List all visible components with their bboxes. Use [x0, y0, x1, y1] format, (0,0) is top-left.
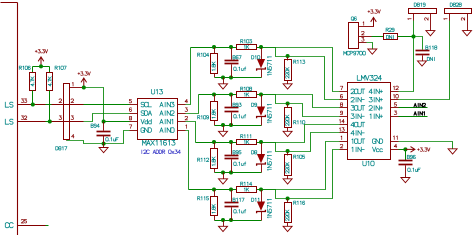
wire Vcc pin4	[399, 149, 406, 151]
junction rail R112 top	[212, 140, 216, 144]
ground cell	[223, 78, 225, 84]
wire cell output jog	[262, 143, 288, 152]
pin 4 D817	[66, 140, 68, 141]
resistor R112 1.8K	[214, 143, 216, 149]
ground Q6	[368, 49, 377, 54]
wire cell to opamp B	[288, 133, 340, 152]
U10 pin 1 1OUT	[340, 141, 348, 143]
wire AIN3 link	[186, 48, 191, 105]
label AIN2	[414, 103, 425, 107]
resistor R103 1K	[237, 45, 257, 50]
wire R115 bottom	[215, 220, 262, 222]
resistor R107 4.7K	[47, 73, 53, 91]
capacitor B93 0.1uf	[231, 95, 233, 107]
resistor R104 1.8K	[214, 48, 216, 54]
wire LS33 to D817	[46, 104, 52, 106]
junction rail B117 top	[229, 188, 233, 192]
junction R107 bottom	[48, 120, 52, 124]
ground cell	[223, 126, 225, 132]
junction B93 bottom	[229, 123, 233, 127]
wire R29 to node	[398, 36, 414, 38]
wire AIN1 link	[186, 122, 196, 143]
diode D819	[409, 9, 437, 14]
wire pullup tee	[33, 66, 50, 68]
junction R113 top	[286, 54, 290, 58]
ground D819	[426, 31, 435, 36]
resistor R113 220K	[287, 57, 289, 61]
U10 pin 7 2OUT	[340, 91, 348, 93]
wire Q6 pin2 to R29	[372, 36, 384, 38]
diode array D817	[52, 104, 84, 106]
ground 220K	[283, 131, 292, 136]
junction Vcc	[403, 147, 407, 151]
Q6 pin 3	[359, 42, 367, 44]
ground cell	[223, 221, 225, 227]
wire AIN2 link	[186, 95, 199, 114]
pin 1 D817	[70, 87, 84, 89]
label AIN1	[414, 112, 424, 116]
wire cell to opamp B	[288, 57, 340, 100]
U13 pin 4 AIN3	[178, 104, 186, 106]
wire SDA jog	[84, 114, 130, 122]
junction rail diode D9	[259, 93, 263, 97]
diode D10 1N5711	[261, 48, 263, 60]
junction rail diode D10	[259, 45, 263, 49]
capacitor B117 0.1uf	[231, 190, 233, 202]
U10 pin 10 3IN+	[391, 99, 399, 101]
junction R110 top	[286, 102, 290, 106]
wire cell to opamp B	[288, 150, 340, 199]
connector sheet-edge component body	[1, 2, 18, 4]
junction rail B67 top	[229, 45, 233, 49]
wire R109 bottom	[215, 125, 262, 127]
wire cell to opamp A	[262, 142, 340, 190]
junction gnd tee	[221, 76, 225, 80]
U13 pin 3 AIN2	[178, 113, 186, 115]
junction gnd tee	[221, 123, 225, 127]
U13 pin 1 AIN0	[178, 130, 186, 132]
diode D828	[445, 9, 472, 14]
U10 pin 9 3IN-	[340, 116, 348, 118]
U10 pin 8 3OUT	[340, 107, 348, 109]
ground pin11	[448, 149, 457, 154]
wire 3IN+ to D828	[399, 21, 450, 100]
pin CC 25	[18, 225, 46, 227]
wire LS32 to D817	[46, 121, 52, 123]
wire 4IN+ to D819	[399, 21, 414, 92]
U10 pin 5 2IN+	[391, 107, 399, 109]
junction pullup top	[39, 64, 43, 68]
wire cell to opamp B	[288, 104, 340, 117]
wire rail R103 cell	[191, 47, 237, 49]
U13 pin 8 Vdd	[130, 121, 138, 123]
wire cell output jog	[262, 190, 288, 199]
wire D817 pin4 to gnd	[67, 141, 104, 144]
resistor R114 1K	[237, 187, 257, 193]
resistor R111 1K	[237, 140, 257, 145]
junction B95 bottom	[229, 171, 233, 175]
junction gnd tee	[221, 218, 225, 222]
wire 2IN+ AIN2	[399, 107, 428, 109]
Q6 pin 1	[359, 26, 374, 28]
wire cell to opamp A	[262, 95, 340, 108]
wire Vdd	[104, 121, 130, 123]
wire AIN0 link	[186, 131, 189, 190]
resistor R29 DNI	[384, 34, 398, 40]
resistor R106 4.7K	[30, 73, 36, 91]
junction R105 top	[286, 149, 290, 153]
ADC U13 MAX11613	[138, 99, 178, 140]
wire rail R108 cell	[199, 94, 237, 96]
ground 220K	[283, 84, 292, 89]
U10 pin 14 4OUT	[340, 124, 348, 126]
capacitor B118 DNI	[414, 37, 423, 50]
wire 1IN+ AIN1	[399, 116, 428, 118]
junction R106 bottom	[31, 103, 35, 107]
wire GND pin11	[399, 142, 453, 149]
capacitor B95 0.1uf	[231, 143, 233, 155]
junction rail diode D11	[259, 188, 263, 192]
wire U13 GND	[104, 131, 130, 144]
pin LS 33	[18, 104, 46, 106]
diode D9 1N5711	[261, 95, 263, 107]
resistor R109 1.8K	[214, 95, 216, 102]
ground B118	[418, 61, 427, 66]
U13 pin 5 SCL	[130, 104, 138, 106]
ground 220K	[283, 179, 292, 184]
wire +3.3V rail to Vdd	[84, 88, 104, 122]
junction B117 bottom	[229, 218, 233, 222]
U10 pin 11 GND	[391, 141, 399, 143]
op-amp U10 LMV324	[348, 83, 391, 160]
wire R112 bottom	[215, 172, 262, 174]
junction R29 node	[412, 35, 416, 39]
ground 220K	[283, 226, 292, 231]
capacitor B94 0.1uF	[103, 122, 105, 131]
diode D8 1N5711	[261, 143, 263, 155]
capacitor B96 0.1uF	[405, 150, 407, 161]
junction rail R104 top	[212, 45, 216, 49]
U10 pin 12 4IN+	[391, 91, 399, 93]
wire cell output jog	[262, 95, 288, 104]
ground D828	[463, 31, 472, 36]
power +3.3V D817	[78, 72, 90, 75]
junction rail B95 top	[229, 140, 233, 144]
junction rail B93 top	[229, 93, 233, 97]
resistor R115 1.8K	[214, 190, 216, 197]
resistor R110 220K	[287, 104, 289, 108]
junction R116 top	[286, 197, 290, 201]
U10 pin 6 2IN-	[340, 99, 348, 101]
sensor Q6 MCP9700	[349, 23, 359, 49]
wire Q6 pin3 gnd	[367, 43, 373, 50]
ground cell	[223, 173, 225, 179]
wire cell to opamp A	[262, 125, 340, 143]
junction gnd tee	[221, 171, 225, 175]
resistor R108 1K	[237, 92, 257, 98]
junction Vdd node	[102, 120, 106, 124]
wire SCL	[84, 104, 130, 106]
wire R104 bottom	[215, 77, 262, 79]
U13 pin 7 GND	[130, 130, 138, 132]
wire rail R111 cell	[196, 142, 237, 144]
wire cell output jog	[262, 48, 288, 57]
power +3.3V Q6	[371, 17, 377, 27]
Q6 pin 2	[359, 36, 372, 38]
ground B94	[103, 144, 105, 148]
junction rail R115 top	[212, 188, 216, 192]
power +3.3V pullups	[35, 50, 47, 53]
U13 pin 2 AIN1	[178, 121, 186, 123]
capacitor B67 0.1uf	[231, 48, 233, 60]
wire cell to opamp A	[262, 48, 340, 92]
U10 pin 3 1IN+	[391, 116, 399, 118]
junction rail R109 top	[212, 93, 216, 97]
wire rail R114 cell	[189, 189, 237, 191]
pin LS 32	[18, 121, 46, 123]
U10 pin 4 Vcc	[391, 149, 399, 151]
junction B67 bottom	[229, 76, 233, 80]
ground B96	[401, 178, 410, 183]
power +3.3V Vcc	[405, 147, 415, 153]
junction D817 pin1	[82, 86, 86, 90]
U13 pin 6 SDA	[130, 113, 138, 115]
resistor R105 220K	[287, 152, 289, 156]
U10 pin 13 4IN-	[340, 132, 348, 134]
U10 pin 2 1IN-	[340, 149, 348, 151]
diode D11 1N5711	[261, 190, 263, 202]
junction gnd node	[102, 142, 106, 146]
resistor R116 220K	[287, 199, 289, 203]
junction rail diode D8	[259, 140, 263, 144]
